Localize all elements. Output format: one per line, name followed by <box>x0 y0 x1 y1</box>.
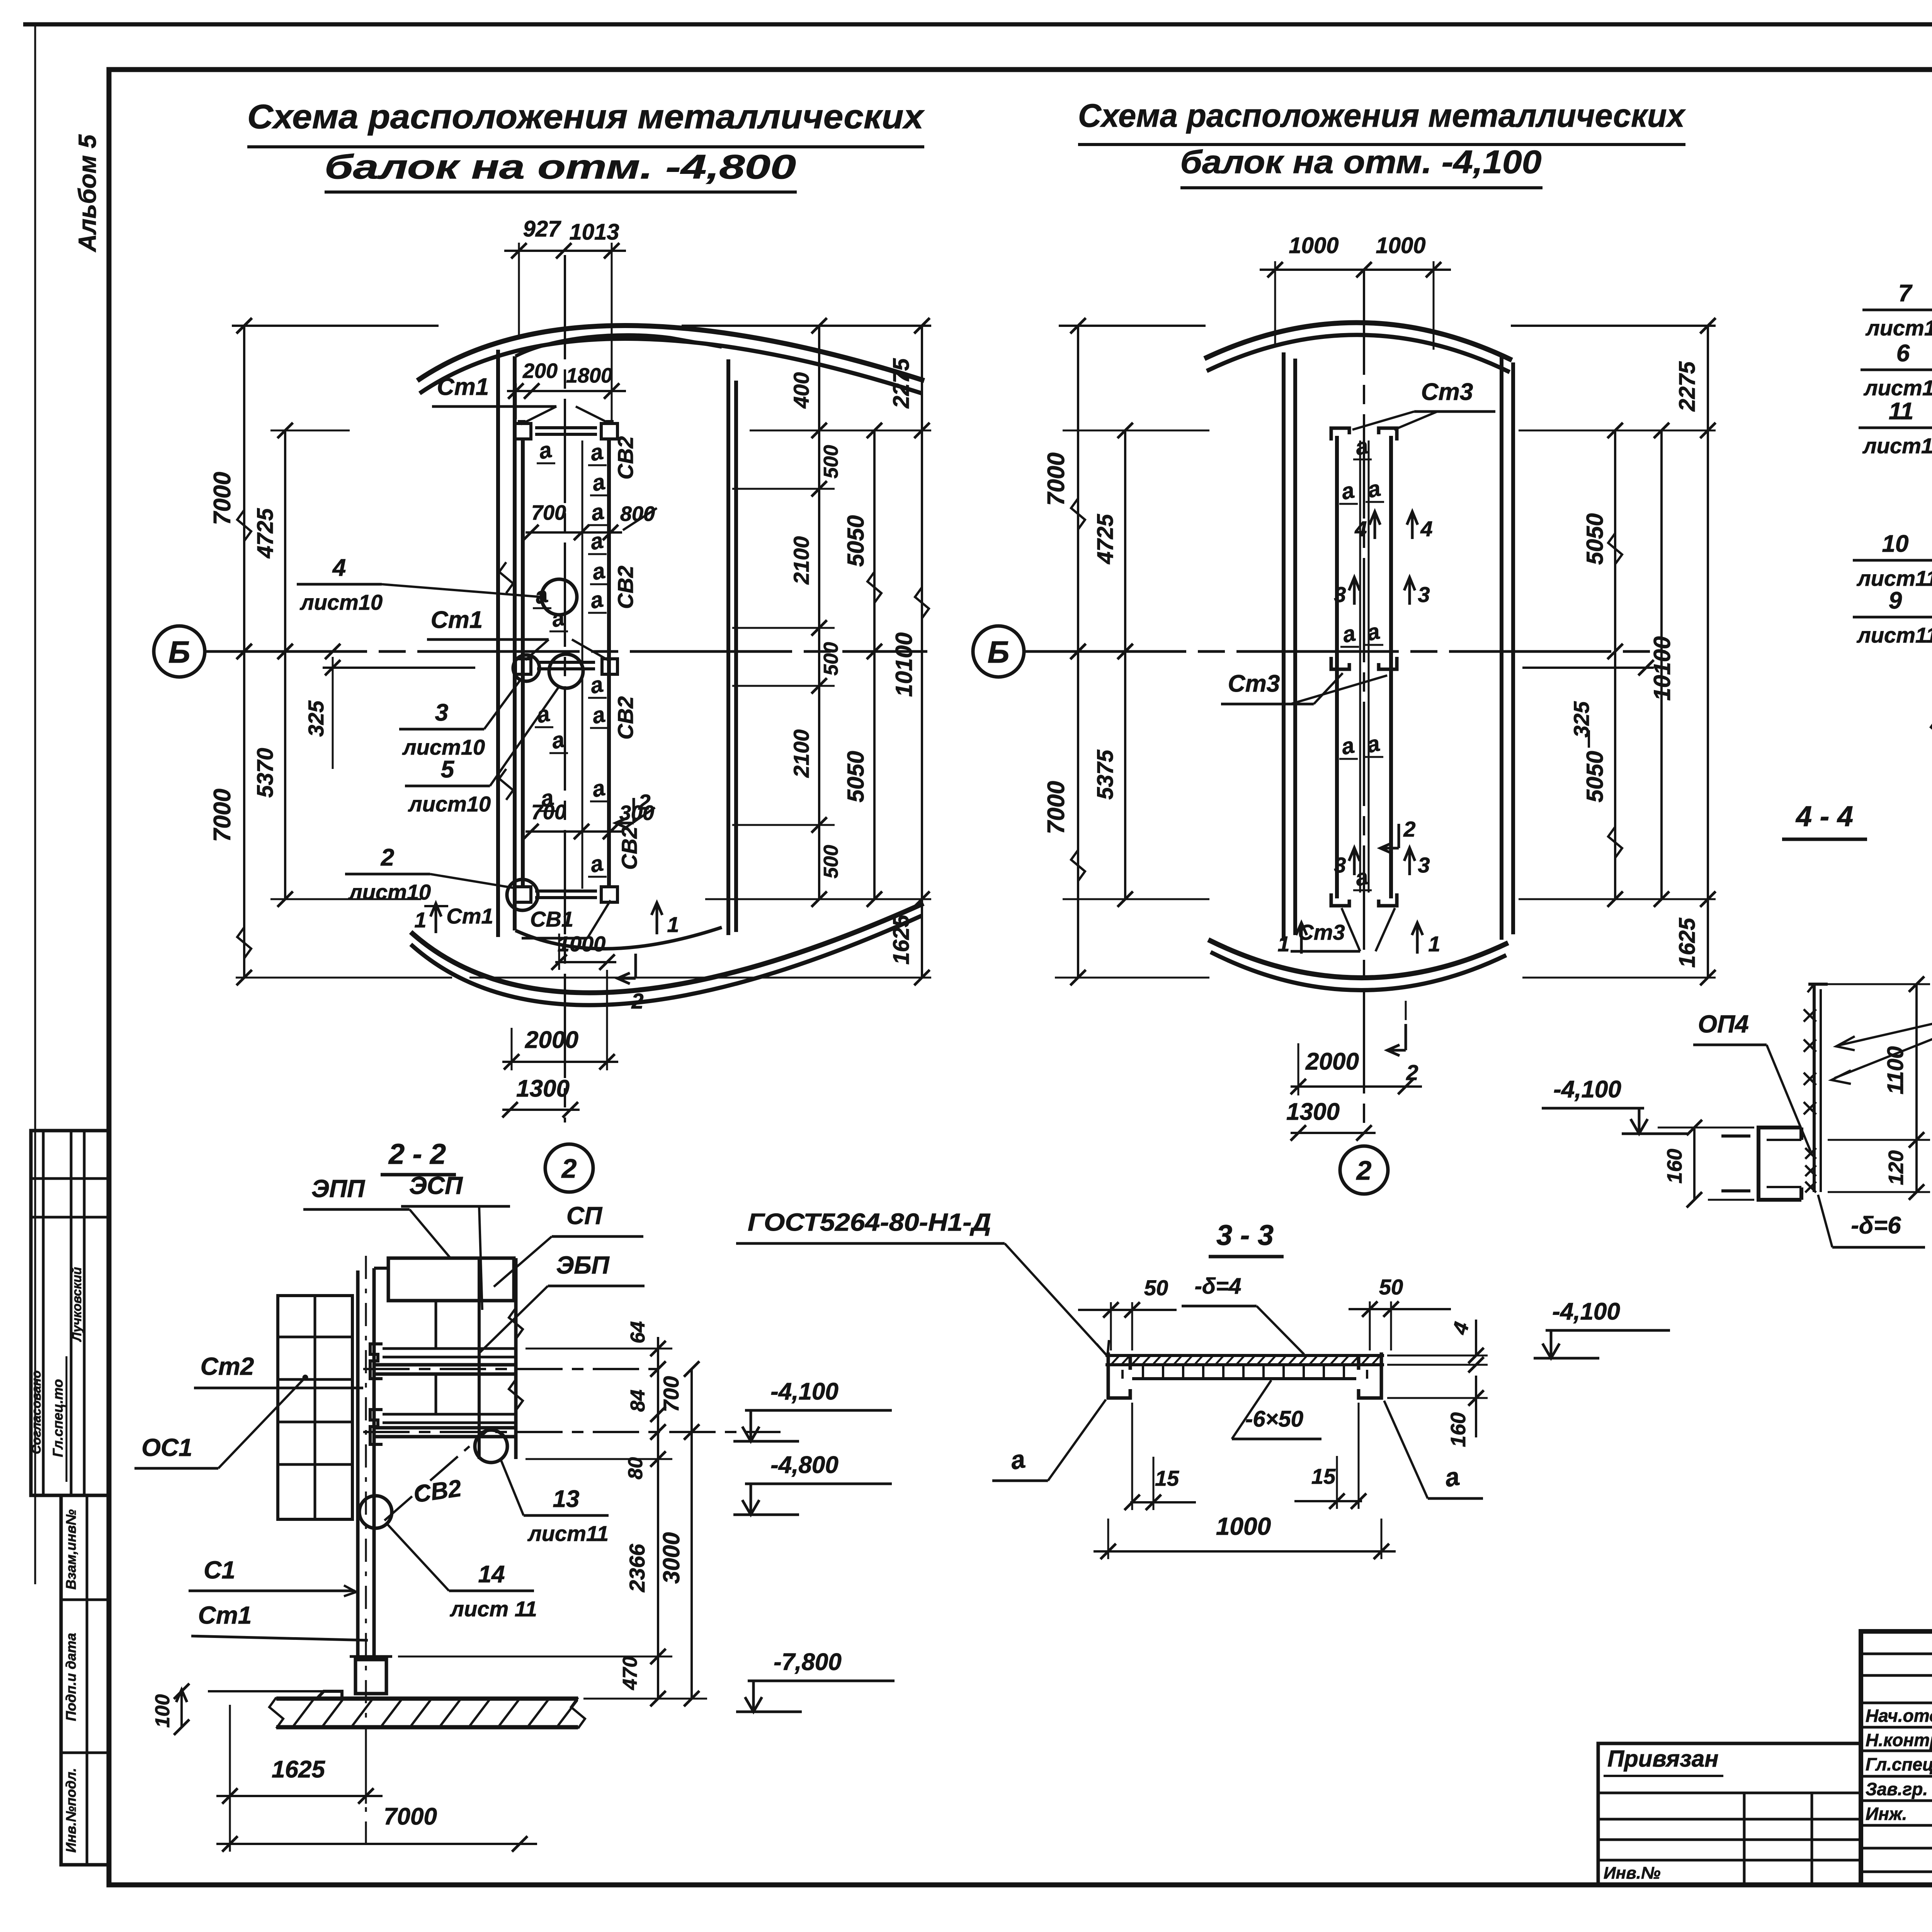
ОП4 channel weld x-marks <box>1805 1148 1816 1192</box>
plan2 dim chain 2275/1625 <box>1675 318 1716 985</box>
svg-text:ЭПП: ЭПП <box>311 1175 366 1202</box>
plan1 dim line 927/1013 <box>504 243 626 425</box>
plan1 dimension 700 <box>531 501 566 524</box>
svg-text:4725: 4725 <box>1093 514 1118 565</box>
sec22 upper casing <box>374 1258 514 1301</box>
sec33 dimension 15 left <box>1124 1403 1196 1510</box>
svg-text:10100: 10100 <box>891 633 917 697</box>
sec22 platform verticals <box>436 1258 523 1459</box>
plan2 beam bottom end channel <box>1331 893 1397 906</box>
plan1 dim line 200/1800 <box>507 383 626 419</box>
svg-text:160: 160 <box>1663 1149 1686 1184</box>
plan2 beam rail right <box>1389 436 1393 898</box>
sec11 callout 6 лист10 <box>1861 340 1932 449</box>
svg-text:160: 160 <box>1447 1412 1470 1447</box>
svg-text:3: 3 <box>435 699 448 726</box>
title plan 2 line 1 <box>1078 97 1686 145</box>
svg-text:5: 5 <box>441 756 455 783</box>
svg-text:а: а <box>1364 619 1382 646</box>
title plan 1 line 1 <box>247 97 925 147</box>
svg-text:1: 1 <box>1428 932 1440 956</box>
plan1 dim chain 5050/5050 <box>843 423 882 907</box>
svg-text:а: а <box>588 850 605 878</box>
stamp text Инв.№подл. <box>63 1768 79 1852</box>
svg-text:2: 2 <box>381 844 394 871</box>
plan1 beam web line <box>582 440 583 889</box>
plan2 label Ст3 bottom <box>1291 908 1395 951</box>
svg-text:Б: Б <box>168 635 190 669</box>
sec22 column С1 <box>358 1256 374 1851</box>
plan1 tank inner wall arc <box>515 335 722 356</box>
plan1 dimension 1300 <box>502 1075 580 1117</box>
svg-text:3: 3 <box>1334 582 1346 607</box>
plan2 beam top end channel <box>1331 428 1397 440</box>
ОП4 dim 160 <box>1658 1120 1754 1207</box>
label ОП4 <box>1693 1010 1811 1151</box>
svg-text:Ст1: Ст1 <box>446 904 493 928</box>
svg-text:Гл.спец.то: Гл.спец.то <box>50 1379 66 1457</box>
plan1 dim chain 4725/5370 <box>253 423 293 907</box>
svg-text:4: 4 <box>332 554 346 581</box>
svg-text:84: 84 <box>627 1389 649 1412</box>
title block outer <box>1861 1631 1932 1885</box>
svg-text:а: а <box>590 702 607 729</box>
svg-text:1: 1 <box>667 912 679 937</box>
plan1 label Ст1 mid <box>427 607 611 662</box>
sec33 dimension 50 left <box>1078 1276 1177 1350</box>
svg-text:500: 500 <box>820 845 842 879</box>
plan1 dim line 700/800 <box>523 525 622 540</box>
sec22 dim chain 64/84/80/2366/470 <box>619 1321 666 1706</box>
plan2 right extension lines <box>1519 430 1716 978</box>
svg-text:ГОСТ5264-80-Н1-Д: ГОСТ5264-80-Н1-Д <box>748 1208 991 1236</box>
axis Б circle plan1 <box>154 626 205 677</box>
svg-text:1625: 1625 <box>889 915 914 965</box>
sec22 pedestal <box>350 1656 392 1694</box>
plan2 section mark 2 upper <box>1380 817 1416 854</box>
svg-text:1100: 1100 <box>1883 1046 1908 1095</box>
svg-text:3 - 3: 3 - 3 <box>1216 1219 1274 1251</box>
svg-text:ОС1: ОС1 <box>141 1434 192 1461</box>
svg-text:200: 200 <box>522 359 558 383</box>
svg-text:а: а <box>1353 433 1370 460</box>
plan1 dim chain 7000/7000 <box>209 318 252 985</box>
stamp text Лучковский <box>70 1248 84 1360</box>
svg-text:СП: СП <box>566 1202 603 1230</box>
svg-text:лист10: лист10 <box>1865 316 1932 340</box>
svg-text:лист10: лист10 <box>1863 376 1932 400</box>
svg-text:Инж.: Инж. <box>1866 1804 1907 1824</box>
inv number text <box>1604 1864 1660 1883</box>
sec22 callout 14 лист 11 <box>386 1523 537 1621</box>
stamp text Подп.и дата <box>63 1633 79 1721</box>
svg-text:325: 325 <box>304 700 328 736</box>
svg-text:Б: Б <box>988 635 1010 669</box>
svg-text:4: 4 <box>1448 1320 1473 1337</box>
sec22 dim chain 700/3000 <box>658 1361 699 1706</box>
svg-text:2: 2 <box>638 790 650 814</box>
plan1 beam rail left Ст1 <box>521 437 525 888</box>
plan1 callout 2 лист10 <box>345 844 538 910</box>
svg-text:5370: 5370 <box>253 748 278 798</box>
left stamp table (Согласовано) <box>31 1131 109 1495</box>
plan1 section mark 1 right <box>651 903 679 937</box>
svg-text:1013: 1013 <box>569 219 619 245</box>
svg-text:Ст3: Ст3 <box>1228 670 1280 697</box>
plan1 dimension 800 <box>620 502 657 530</box>
plan2 beam rail left <box>1335 436 1339 898</box>
plan1 label Ст1 top <box>432 374 610 424</box>
plan1 tank outer shell bottom arc <box>411 903 923 1005</box>
svg-text:Схема расположения металлическ: Схема расположения металлических <box>1078 97 1686 134</box>
plan2 dimension 2000 <box>1291 1001 1422 1095</box>
sec22 diagonal brace СВ2 <box>384 1430 488 1520</box>
axis Б line plan2 <box>1024 644 1665 659</box>
svg-text:4: 4 <box>1420 517 1432 541</box>
svg-text:2275: 2275 <box>889 358 914 409</box>
ОП4 channel section <box>1721 1128 1801 1200</box>
svg-text:5050: 5050 <box>1582 751 1608 802</box>
svg-text:а: а <box>590 775 607 802</box>
svg-text:2100: 2100 <box>789 730 813 778</box>
svg-text:15: 15 <box>1155 1466 1179 1490</box>
plan2 tank wall right <box>1502 356 1513 940</box>
svg-text:11: 11 <box>1889 398 1913 425</box>
svg-text:120: 120 <box>1884 1150 1908 1185</box>
svg-text:2100: 2100 <box>789 536 813 585</box>
svg-text:ЭСП: ЭСП <box>409 1172 463 1199</box>
plan2 weld letters a <box>1339 433 1384 891</box>
svg-text:6: 6 <box>1896 340 1910 367</box>
svg-text:10100: 10100 <box>1649 636 1675 701</box>
svg-text:Согласовано: Согласовано <box>29 1371 43 1454</box>
sec22 platform -4,800 <box>363 1410 781 1444</box>
svg-text:Инв.№подл.: Инв.№подл. <box>63 1768 79 1852</box>
svg-text:лист11: лист11 <box>1856 566 1932 590</box>
sec22 elevation -7,800 <box>736 1649 895 1712</box>
plan2 dim chain 7000/7000 <box>1043 318 1086 985</box>
svg-text:7: 7 <box>1898 280 1913 307</box>
axis Б line plan1 <box>205 644 927 659</box>
plan1 tank inner wall bottom arc <box>515 927 722 949</box>
plan1 dimension 1013 <box>569 219 619 245</box>
sec33 heading 3-3 <box>1209 1219 1284 1257</box>
album label Альбом 5 <box>73 134 101 253</box>
sec11 base slab <box>1931 718 1932 748</box>
svg-text:-4,100: -4,100 <box>1552 1298 1620 1325</box>
svg-text:балок на отм. -4,100: балок на отм. -4,100 <box>1180 144 1542 180</box>
svg-text:2: 2 <box>631 989 643 1013</box>
plan1 dimension 200 <box>522 359 558 383</box>
svg-text:а: а <box>1364 731 1382 758</box>
svg-text:лист10: лист10 <box>408 792 491 816</box>
plan2 partition wall left <box>1284 352 1295 941</box>
sec22 elevation -4,100 <box>733 1378 892 1441</box>
sec33 note -δ=4 <box>1182 1274 1304 1354</box>
svg-text:2: 2 <box>1403 817 1415 841</box>
svg-text:-δ=4: -δ=4 <box>1195 1274 1242 1299</box>
plan2 node circle 2 <box>1340 1146 1388 1194</box>
svg-text:1000: 1000 <box>1376 233 1425 258</box>
svg-text:СВ2: СВ2 <box>412 1475 463 1508</box>
ОП4 weld x-marks <box>1804 1009 1816 1114</box>
plan2 dim chain 10100 <box>1649 423 1675 907</box>
svg-text:СВ2: СВ2 <box>613 436 638 480</box>
svg-text:100: 100 <box>151 1694 174 1728</box>
svg-text:Взам,инв№: Взам,инв№ <box>63 1509 79 1590</box>
svg-text:лист11: лист11 <box>1862 434 1932 458</box>
stamp text Согласовано <box>29 1371 43 1454</box>
svg-text:а: а <box>590 558 607 585</box>
svg-text:5050: 5050 <box>843 751 869 802</box>
sec33 end channel right <box>1359 1352 1381 1398</box>
svg-text:лист11: лист11 <box>1856 623 1932 647</box>
privyazan table <box>1598 1743 1861 1885</box>
svg-text:10: 10 <box>1882 531 1909 557</box>
sec22 elevation -4,800 <box>733 1452 892 1515</box>
sec22 dimension 1625 <box>216 1705 383 1852</box>
svg-text:2: 2 <box>561 1153 577 1184</box>
sec22 label ЭСП <box>401 1172 510 1310</box>
svg-text:Н.контр: Н.контр <box>1866 1730 1932 1750</box>
svg-text:СВ2: СВ2 <box>617 827 641 870</box>
svg-text:2000: 2000 <box>525 1027 578 1053</box>
svg-text:400: 400 <box>789 372 813 408</box>
sec33 weld letter a right <box>1384 1401 1483 1498</box>
ОП4 dim 120 <box>1828 1150 1930 1200</box>
svg-text:Схема расположения металлическ: Схема расположения металлических <box>247 97 925 136</box>
svg-text:СВ2: СВ2 <box>613 696 638 740</box>
svg-text:7000: 7000 <box>209 472 236 525</box>
axis Б circle plan2 <box>973 626 1024 677</box>
svg-text:500: 500 <box>820 642 842 676</box>
plan2 dimension 1000 1000 <box>1260 233 1451 350</box>
svg-text:470: 470 <box>619 1656 641 1690</box>
svg-text:5375: 5375 <box>1093 750 1118 800</box>
plan2 section mark 2 below tank <box>1387 1024 1418 1085</box>
svg-text:50: 50 <box>1144 1276 1168 1300</box>
svg-text:3: 3 <box>1418 582 1430 607</box>
sec11 callout 10 лист11 <box>1853 531 1932 634</box>
plan1 node circle 2 <box>545 1144 593 1192</box>
plan1 callout 3 лист10 <box>399 655 539 759</box>
plan2 beam mid channels <box>1331 657 1397 669</box>
svg-text:50: 50 <box>1379 1275 1403 1299</box>
plan1 top extension line <box>232 318 931 333</box>
sec11 callout 7 лист10 <box>1862 280 1932 374</box>
svg-text:13: 13 <box>553 1486 580 1512</box>
svg-text:а: а <box>1340 621 1357 648</box>
sec33 grating deck <box>1105 1355 1384 1379</box>
left stamp table (Инв №) <box>61 1495 109 1865</box>
svg-text:Инв.№: Инв.№ <box>1604 1864 1660 1883</box>
sec33 end channel left <box>1108 1352 1130 1398</box>
sec33 dimension 1000 <box>1094 1512 1396 1559</box>
sec33 dimension 4 <box>1387 1320 1488 1372</box>
sec33 dimension 15 right <box>1294 1403 1366 1509</box>
plan1 beam bottom cross member <box>515 887 617 902</box>
svg-text:1300: 1300 <box>516 1075 570 1102</box>
stamp text Гл.спец.то <box>50 1356 66 1482</box>
svg-text:14: 14 <box>478 1561 505 1588</box>
svg-text:700: 700 <box>659 1376 683 1412</box>
svg-text:64: 64 <box>627 1321 649 1344</box>
plan2 dim chain 4725/5375 <box>1093 423 1133 907</box>
svg-text:-4,800: -4,800 <box>770 1452 838 1478</box>
svg-text:7000: 7000 <box>209 789 236 842</box>
sec33 weld letter a left <box>992 1400 1106 1481</box>
svg-text:7000: 7000 <box>1043 781 1070 834</box>
plan1 weld letters a <box>532 437 609 878</box>
plan1 dimension 1000 <box>551 932 616 970</box>
privyazan text <box>1604 1746 1723 1776</box>
sec22 label ЭБП <box>480 1251 645 1352</box>
svg-text:Нач.отд.: Нач.отд. <box>1866 1706 1932 1726</box>
plan1 dim chain 400/500/2100/500/2100/500 <box>789 318 842 907</box>
svg-text:1300: 1300 <box>1286 1099 1340 1125</box>
sec22 heading 2-2 <box>381 1138 456 1175</box>
sec22 label ЭПП <box>303 1175 450 1258</box>
ОП4 post plate <box>1808 984 1828 1192</box>
plan2 beam web lines <box>1360 440 1369 893</box>
svg-text:а: а <box>588 587 605 614</box>
plan2 section marks 1 bottom <box>1277 923 1440 956</box>
svg-text:2000: 2000 <box>1305 1048 1359 1075</box>
title block left columns <box>1861 1631 1932 1885</box>
svg-text:С1: С1 <box>204 1556 235 1584</box>
plan2 offset line 325 <box>1522 660 1654 748</box>
plan1 section mark 2 upper <box>616 790 651 828</box>
svg-text:2 - 2: 2 - 2 <box>388 1138 446 1170</box>
ОП4 dim 1100 <box>1828 976 1930 1192</box>
plan2 top extension line <box>1059 318 1716 333</box>
svg-text:лист10: лист10 <box>402 735 485 759</box>
svg-text:4: 4 <box>1354 517 1367 541</box>
svg-text:Ст1: Ст1 <box>198 1601 252 1629</box>
sec22 base slab <box>208 1691 585 1728</box>
svg-text:15: 15 <box>1311 1464 1336 1488</box>
svg-text:1625: 1625 <box>1675 918 1700 968</box>
sheet outer left edge <box>34 24 36 1584</box>
sec22 label СП <box>494 1202 643 1287</box>
plan2 section marks 3-3 upper <box>1334 577 1430 607</box>
sec33 note -6x50 <box>1232 1380 1321 1439</box>
svg-text:а: а <box>1339 733 1356 760</box>
plan1 tank outer shell top arc <box>417 326 924 394</box>
svg-text:ЭБП: ЭБП <box>556 1251 610 1279</box>
svg-text:СВ2: СВ2 <box>613 566 638 609</box>
svg-text:Ст1: Ст1 <box>431 607 483 633</box>
plan1 beam mid connector <box>515 659 617 674</box>
svg-text:2: 2 <box>1356 1155 1372 1185</box>
svg-text:1000: 1000 <box>1216 1512 1271 1540</box>
plan2 label Ст3 mid <box>1221 670 1387 704</box>
svg-text:700: 700 <box>531 501 566 524</box>
plan1 dimension 700 lower <box>531 801 566 824</box>
svg-text:-4,100: -4,100 <box>1553 1076 1621 1103</box>
svg-text:лист10: лист10 <box>348 880 431 904</box>
plan2 section marks 4-4 <box>1354 512 1432 541</box>
svg-text:4725: 4725 <box>253 508 278 559</box>
svg-text:2366: 2366 <box>625 1544 649 1592</box>
plan1 right extension lines <box>469 430 931 978</box>
svg-text:1000: 1000 <box>1289 233 1338 258</box>
svg-text:Ст2: Ст2 <box>201 1352 254 1380</box>
svg-text:Ст3: Ст3 <box>1421 379 1473 405</box>
signature rows labels <box>1866 1704 1932 1726</box>
note -δ=6 <box>1818 1195 1925 1247</box>
svg-text:2275: 2275 <box>1675 361 1700 412</box>
svg-text:80: 80 <box>624 1457 647 1480</box>
plan2 left extension lines <box>1055 430 1209 978</box>
sec22 label ОС1 <box>134 1375 308 1468</box>
svg-text:Ст1: Ст1 <box>437 374 489 400</box>
plan1 dim line 700/300 lower <box>523 824 622 839</box>
sec22 label С1 <box>189 1556 356 1596</box>
svg-text:а: а <box>536 437 554 464</box>
plan1 beam top cross member <box>515 421 617 439</box>
plan2 dim chain 5050/5050 right <box>1582 423 1623 907</box>
svg-text:СВ1: СВ1 <box>530 907 573 931</box>
svg-text:5050: 5050 <box>843 515 869 566</box>
svg-text:Гл.спец: Гл.спец <box>1866 1754 1932 1774</box>
svg-text:-4,100: -4,100 <box>770 1378 838 1405</box>
svg-text:1000: 1000 <box>558 932 606 956</box>
svg-text:3000: 3000 <box>658 1532 684 1583</box>
plan2 dimension 1300 <box>1286 1099 1376 1141</box>
svg-text:лист10: лист10 <box>299 590 383 614</box>
plan1 section mark 2 lower <box>617 954 644 1013</box>
plan1 label СВ1 <box>522 900 611 938</box>
plan1 partition wall left <box>498 350 515 937</box>
svg-text:927: 927 <box>523 216 562 241</box>
stamp text Взам,инв№ <box>63 1509 79 1590</box>
svg-text:1800: 1800 <box>566 364 612 387</box>
ГОСТ weld note right <box>1832 967 1932 1084</box>
sec22 grid block ОС1 <box>278 1296 352 1519</box>
svg-text:лист11: лист11 <box>527 1521 609 1546</box>
plan1 wall break marks <box>499 562 513 800</box>
svg-text:Зав.гр.: Зав.гр. <box>1866 1779 1928 1799</box>
svg-text:-7,800: -7,800 <box>774 1649 842 1675</box>
svg-text:-δ=6: -δ=6 <box>1851 1212 1901 1239</box>
svg-text:7000: 7000 <box>384 1803 437 1830</box>
svg-text:а: а <box>588 499 606 526</box>
svg-text:5050: 5050 <box>1582 513 1608 565</box>
svg-text:а: а <box>1009 1444 1027 1475</box>
plan1 left extension lines <box>236 430 452 978</box>
svg-text:Подп.и дата: Подп.и дата <box>63 1633 79 1721</box>
plan1 callout 5 лист10 <box>405 654 583 816</box>
title plan 2 line 2 <box>1180 144 1543 188</box>
heading 4-4 <box>1782 800 1867 839</box>
svg-text:а: а <box>1443 1462 1462 1492</box>
sec22 callout 13 лист11 <box>500 1459 609 1546</box>
plan1 beam centerline <box>564 255 566 1122</box>
svg-text:700: 700 <box>531 801 566 824</box>
sec22 detail circle 14 <box>359 1496 392 1528</box>
svg-text:4 - 4: 4 - 4 <box>1795 800 1853 832</box>
svg-text:Альбом 5: Альбом 5 <box>73 134 101 253</box>
sec22 label Ст1 <box>191 1601 368 1640</box>
ОП4 elevation -4,100 <box>1542 1076 1687 1134</box>
plan1 dimension 2000 <box>502 970 618 1070</box>
sec22 label Ст2 <box>194 1352 363 1388</box>
svg-text:ОП4: ОП4 <box>1698 1010 1748 1038</box>
plan1 beam rail right СВ2 <box>607 437 611 888</box>
svg-text:3: 3 <box>1334 853 1346 877</box>
svg-text:1: 1 <box>414 908 426 932</box>
